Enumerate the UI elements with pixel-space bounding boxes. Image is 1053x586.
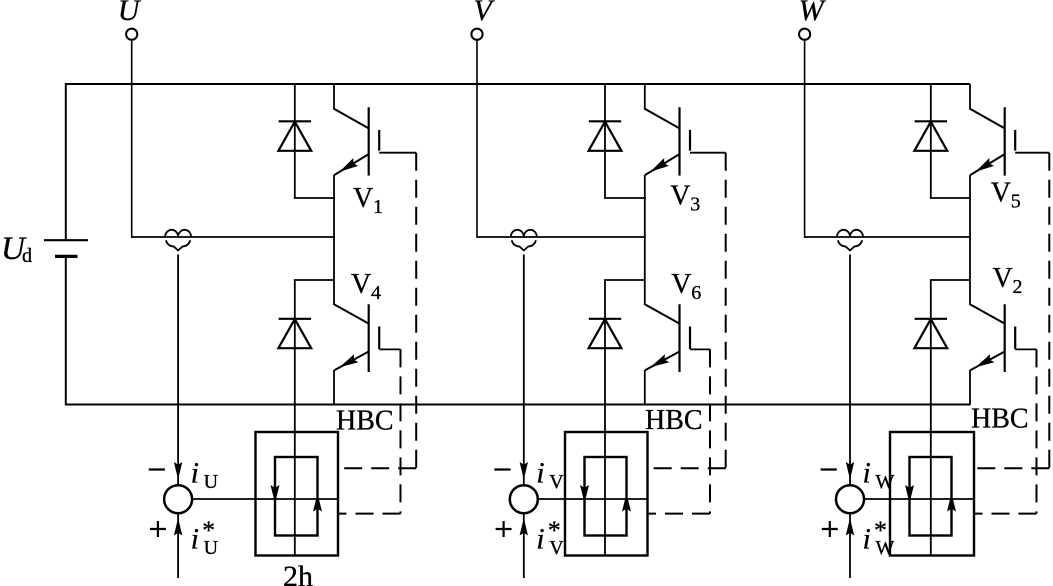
wire terminal U to phase node: [131, 40, 133, 238]
svg-text:V: V: [670, 181, 690, 212]
wire error signal to hysteresis comparator: [864, 498, 974, 500]
svg-text:i: i: [191, 523, 199, 556]
current sensor phase W: [837, 230, 863, 251]
wire lower diode branch stub: [294, 279, 334, 281]
wire gate lead V5: [1015, 152, 1049, 154]
label minus at summing junction: [494, 468, 510, 470]
wire dashed gate drive V5: [1048, 153, 1050, 469]
arrow measured current into summing junction: [520, 462, 528, 480]
svg-text:HBC: HBC: [971, 404, 1029, 435]
terminal node U: [126, 29, 137, 40]
svg-text:i: i: [191, 457, 199, 490]
svg-text:i: i: [536, 457, 544, 490]
arrow reference current into summing junction: [174, 518, 182, 536]
arrow reference current into summing junction: [520, 518, 528, 536]
svg-text:6: 6: [691, 282, 701, 304]
svg-text:V: V: [351, 269, 371, 300]
wire collector lead V2 from phase node: [969, 237, 971, 304]
wire error signal to hysteresis comparator: [192, 498, 338, 500]
wire dashed gate drive V1: [415, 153, 417, 469]
summing junction phase U: [164, 485, 192, 513]
diode (anti-parallel with V1): [278, 121, 311, 151]
svg-text:V: V: [549, 471, 564, 493]
svg-text:HBC: HBC: [336, 406, 394, 437]
wire dashed gate drive V4: [400, 349, 402, 513]
battery Ud positive lead wire: [65, 83, 67, 239]
svg-text:i: i: [863, 523, 871, 556]
transistor V5 (IGBT, upper): [969, 84, 1015, 237]
battery Ud: [44, 240, 88, 256]
summing junction phase W: [836, 485, 864, 513]
transistor V6 (IGBT, lower): [644, 304, 690, 405]
diode (anti-parallel with V5): [914, 121, 947, 151]
label minus at summing junction: [821, 468, 837, 470]
svg-text:W: W: [799, 0, 827, 27]
wire collector lead V6 from phase node: [644, 237, 646, 304]
diode (anti-parallel with V2): [914, 319, 947, 348]
svg-text:4: 4: [371, 282, 381, 304]
svg-text:i: i: [536, 523, 544, 556]
wire upper diode branch V1 from top rail: [294, 84, 296, 198]
wire upper diode branch V3 from top rail: [604, 84, 606, 198]
wire phase node V (midpoint rail): [477, 236, 646, 238]
arrow measured current into summing junction: [174, 462, 182, 480]
diode (anti-parallel with V4): [278, 319, 311, 348]
svg-text:HBC: HBC: [645, 405, 703, 436]
wire lower diode branch stub: [604, 279, 645, 281]
wire lower diode branch to bottom rail and hysteresis axis: [294, 280, 296, 556]
wire terminal V to phase node: [476, 40, 478, 238]
svg-text:V: V: [474, 0, 496, 27]
transistor V4 (IGBT, lower): [333, 304, 379, 405]
wire reference current input from below: [523, 513, 525, 578]
arrow reference current into summing junction: [846, 518, 854, 536]
battery Ud negative lead wire: [65, 256, 67, 405]
svg-text:V: V: [993, 263, 1013, 294]
label plus at summing junction: [822, 521, 838, 537]
hysteresis comparator block phase U (outer box): [256, 432, 339, 556]
hysteresis comparator block phase V (outer box): [565, 432, 648, 556]
wire dashed gate drive V2: [1036, 349, 1038, 513]
svg-text:1: 1: [373, 196, 383, 218]
svg-text:V: V: [549, 537, 564, 559]
wire gate lead V1: [379, 152, 416, 154]
wire lower diode branch stub: [930, 279, 970, 281]
arrow hysteresis loop falling branch: [905, 485, 914, 503]
hysteresis loop (inner box): [275, 457, 318, 536]
wire top DC bus rail: [66, 83, 970, 85]
svg-text:i: i: [863, 457, 871, 490]
label plus at summing junction: [150, 521, 166, 537]
hysteresis loop (inner box): [585, 457, 627, 536]
wire gate lead V3: [690, 152, 726, 154]
transistor V1 (IGBT, upper): [333, 84, 379, 237]
wire bottom DC bus rail: [66, 404, 971, 406]
wire reference current input from below: [177, 513, 179, 578]
wire dashed gate drive V6: [709, 349, 711, 513]
diode (anti-parallel with V6): [589, 319, 622, 348]
svg-text:U: U: [204, 471, 219, 493]
transistor V2 (IGBT, lower): [969, 304, 1015, 405]
arrow hysteresis loop falling branch: [580, 485, 589, 503]
terminal node W: [799, 29, 810, 40]
wire gate lead V2: [1015, 348, 1036, 350]
svg-text:V: V: [991, 178, 1011, 209]
wire sensor output down to summing junction: [523, 255, 525, 486]
svg-text:2h: 2h: [283, 560, 313, 586]
arrow hysteresis loop rising branch: [313, 494, 322, 512]
arrow hysteresis loop rising branch: [947, 494, 956, 512]
label plus at summing junction: [496, 521, 512, 537]
wire sensor output down to summing junction: [849, 255, 851, 486]
terminal node V: [471, 29, 482, 40]
diode (anti-parallel with V3): [589, 121, 622, 151]
wire gate lead V4: [379, 348, 400, 350]
wire lower diode branch to bottom rail and hysteresis axis: [604, 280, 606, 556]
wire error signal to hysteresis comparator: [538, 498, 648, 500]
svg-text:5: 5: [1011, 191, 1021, 213]
wire reference current input from below: [849, 513, 851, 578]
wire phase node W (midpoint rail): [805, 236, 971, 238]
wire gate lead V6: [690, 348, 710, 350]
summing junction phase V: [510, 485, 538, 513]
wire upper diode to emitter of V5: [930, 197, 971, 199]
hysteresis loop (inner box): [910, 457, 952, 536]
arrow hysteresis loop rising branch: [622, 494, 631, 512]
wire upper diode branch V5 from top rail: [930, 84, 932, 198]
current sensor phase U: [165, 230, 191, 251]
svg-text:U: U: [118, 0, 142, 27]
wire upper diode to emitter of V1: [294, 197, 335, 199]
wire collector lead V4 from phase node: [333, 237, 335, 304]
svg-text:3: 3: [690, 194, 700, 216]
svg-text:W: W: [876, 471, 895, 493]
svg-text:V: V: [671, 269, 691, 300]
wire lower diode branch to bottom rail and hysteresis axis: [930, 280, 932, 556]
svg-text:U: U: [204, 537, 219, 559]
svg-text:d: d: [22, 245, 32, 267]
hysteresis comparator block phase W (outer box): [890, 432, 974, 556]
wire upper diode to emitter of V3: [604, 197, 646, 199]
wire terminal W to phase node: [804, 40, 806, 238]
current sensor phase V: [511, 230, 537, 251]
arrow measured current into summing junction: [846, 462, 854, 480]
wire dashed gate drive V3: [725, 153, 727, 469]
svg-text:2: 2: [1013, 276, 1023, 298]
wire sensor output down to summing junction: [177, 255, 179, 486]
transistor V3 (IGBT, upper): [644, 84, 690, 237]
label minus at summing junction: [149, 468, 165, 470]
arrow hysteresis loop falling branch: [271, 485, 280, 503]
wire phase node U (midpoint rail): [132, 236, 335, 238]
svg-text:V: V: [353, 183, 373, 214]
